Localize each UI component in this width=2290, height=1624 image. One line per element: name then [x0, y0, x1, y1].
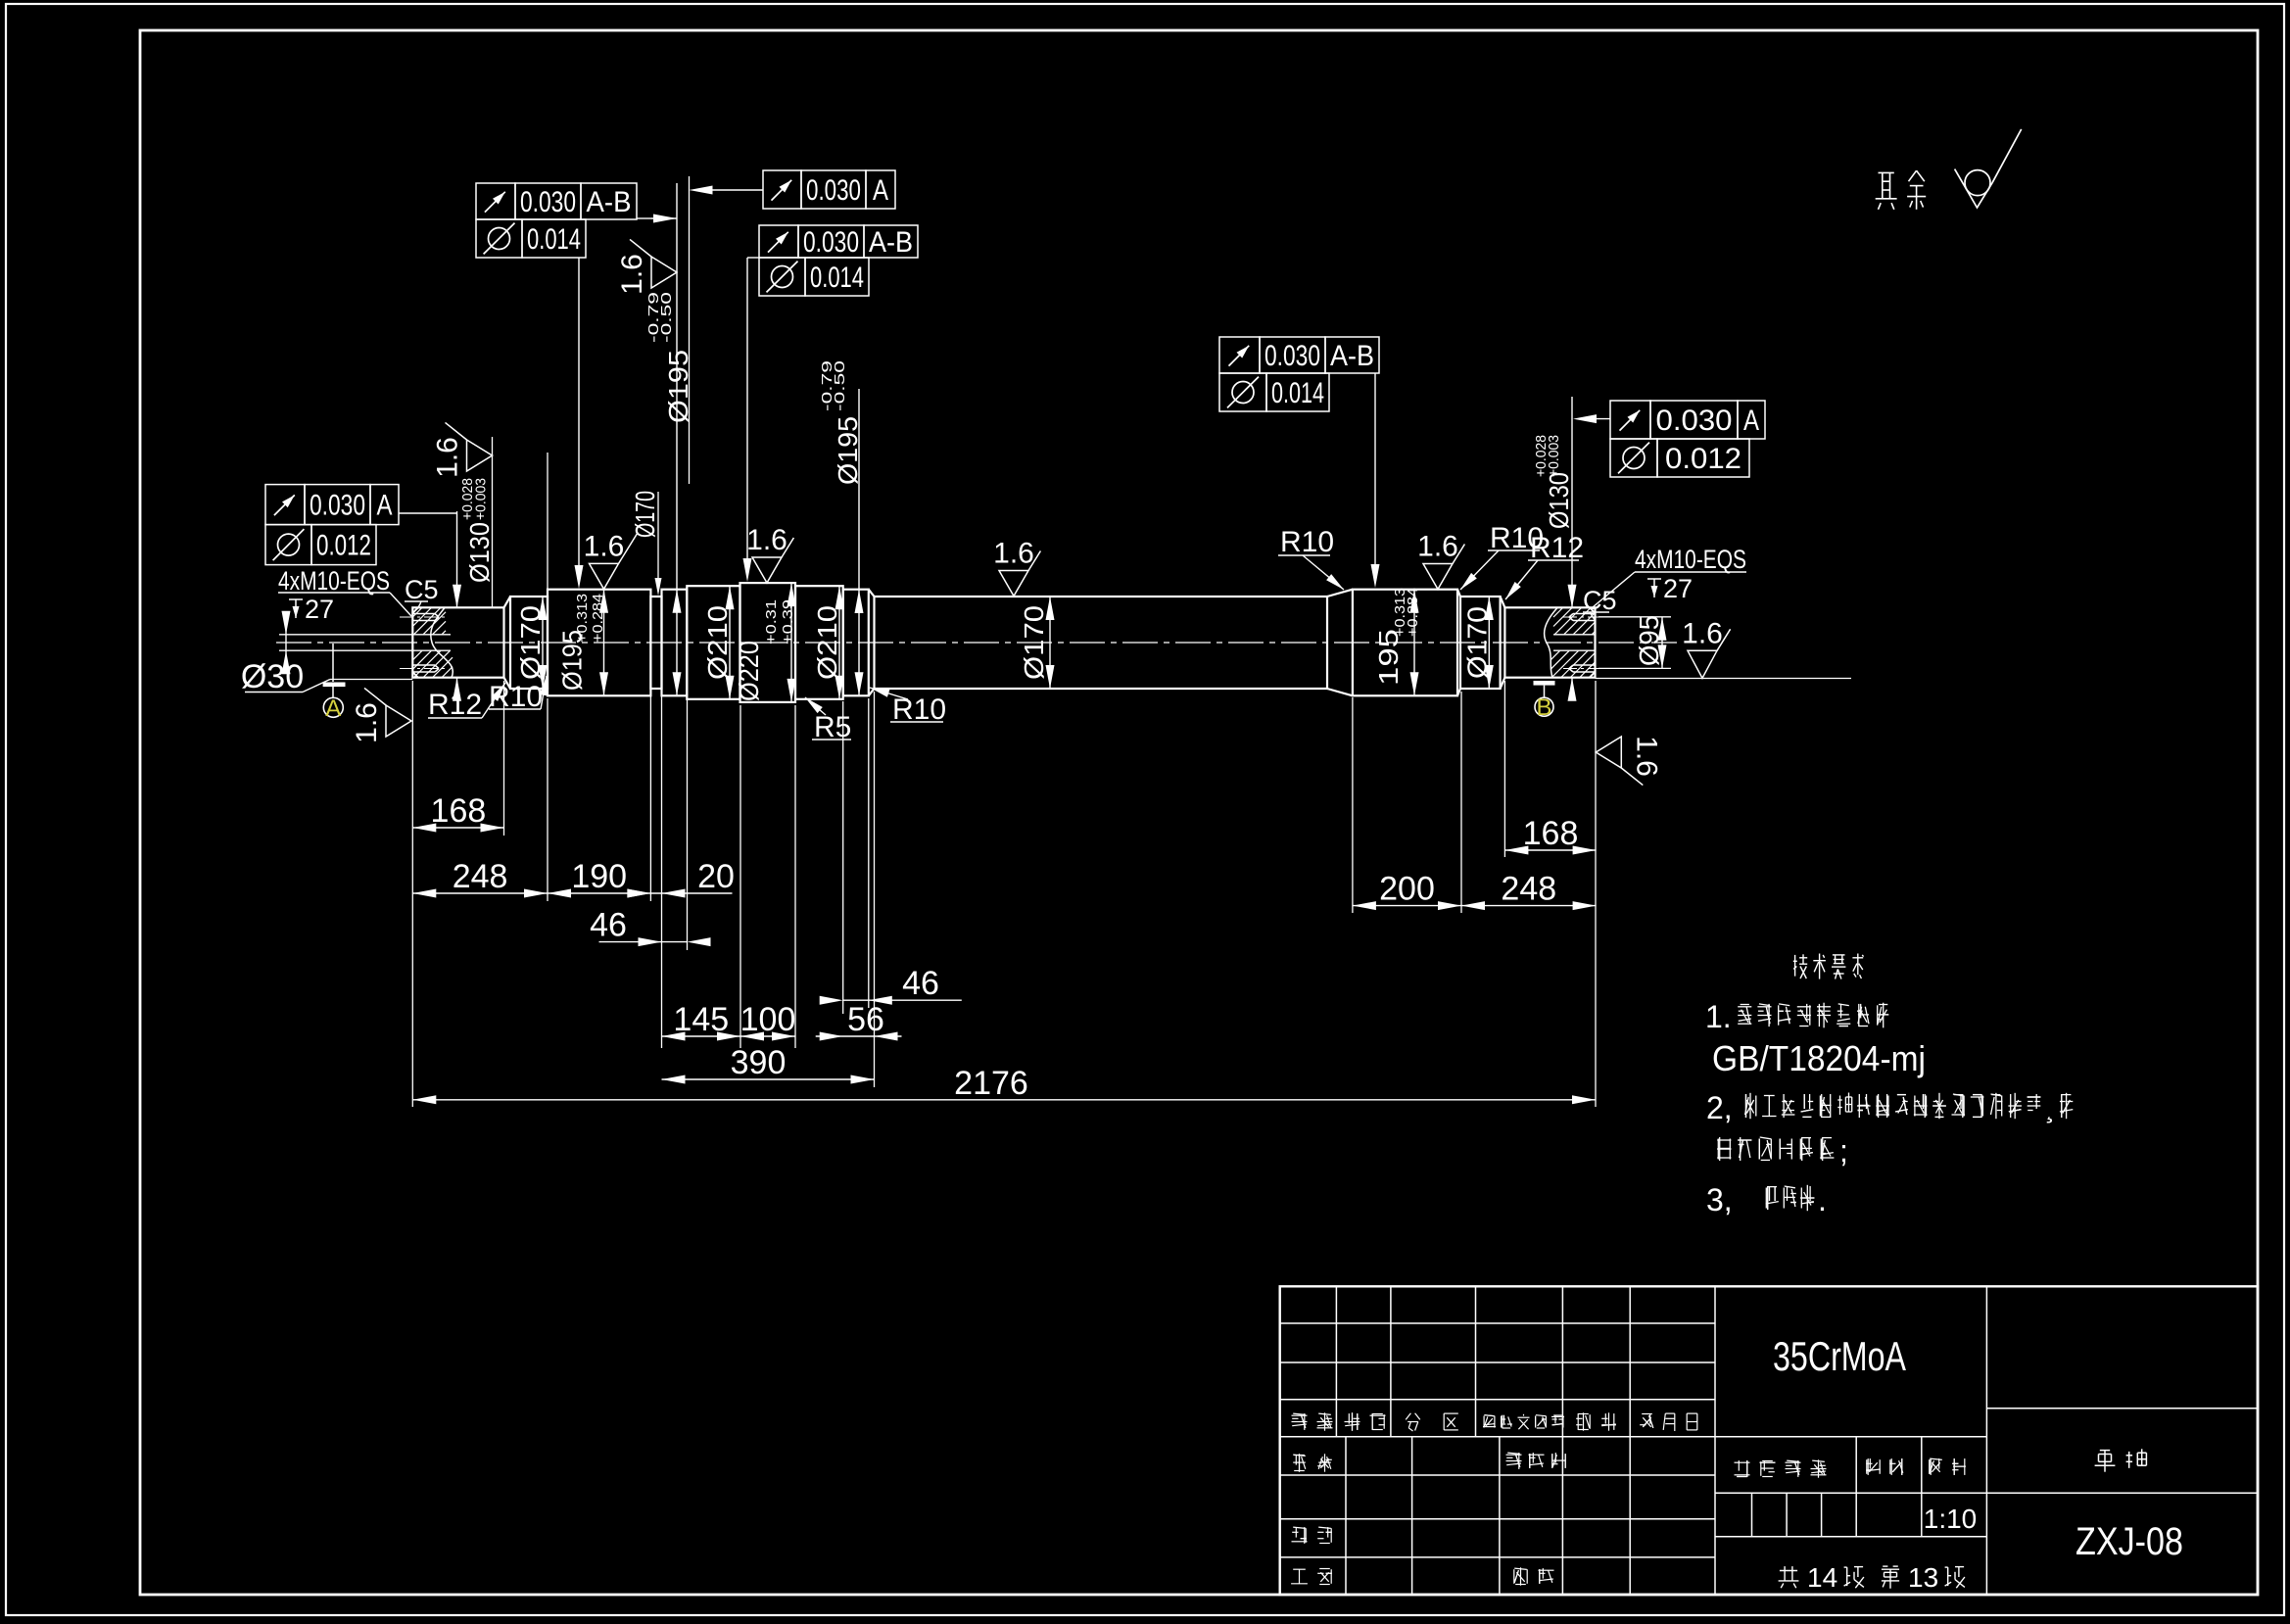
svg-text:0.030: 0.030: [1656, 405, 1733, 437]
svg-text:1.6: 1.6: [1682, 617, 1723, 649]
extension line wheel seat x559 up: [547, 453, 549, 590]
title block labels: [1291, 1412, 1966, 1585]
svg-text:0.012: 0.012: [316, 530, 371, 562]
dimension 100: [740, 1001, 796, 1041]
svg-text:1.6: 1.6: [746, 524, 787, 556]
drawing number ZXJ-08: [2075, 1520, 2183, 1563]
label C5 right: [1583, 586, 1617, 621]
shaft centerline: [276, 642, 1677, 644]
break line right: [1545, 608, 1557, 678]
svg-text:56: 56: [847, 1001, 884, 1038]
svg-text:1:10: 1:10: [1924, 1504, 1978, 1534]
svg-text:14: 14: [1807, 1562, 1837, 1593]
surface callout extension line x502: [492, 437, 494, 607]
diameter dim Ø170 left: [515, 597, 548, 689]
diameter dim Ø130 right journal: [1533, 397, 1577, 701]
svg-text:Ø170: Ø170: [1461, 606, 1492, 679]
svg-text:0.030: 0.030: [1264, 340, 1320, 372]
dimension 168 right: [1504, 815, 1596, 855]
surface finish 1.6 barrel: [993, 538, 1040, 597]
surface finish 1.6 left face (rotated): [351, 688, 411, 742]
diameter dim Ø210 left: [702, 586, 735, 699]
datum A symbol: [323, 644, 346, 722]
diameter dim Ø195-0.79-0.50 first: [645, 183, 693, 695]
label 4xM10-EQS right with depth 27: [1593, 545, 1746, 607]
diameter dim Ø220: [734, 583, 796, 702]
label R10 left 1: [489, 676, 548, 713]
surface finish 1.6 right bolt face: [1682, 617, 1730, 678]
svg-text:20: 20: [697, 858, 735, 895]
title block grid: [1280, 1286, 2258, 1595]
svg-text:390: 390: [731, 1044, 787, 1081]
svg-text:R10: R10: [1280, 526, 1334, 558]
svg-text:2,: 2,: [1706, 1090, 1733, 1125]
dimension 145: [662, 1001, 741, 1041]
hatching left end section: [412, 608, 453, 678]
svg-text:3,: 3,: [1706, 1182, 1733, 1218]
svg-text:A: A: [873, 174, 888, 207]
diameter dim Ø170 barrel: [1019, 597, 1055, 689]
svg-text:27: 27: [305, 595, 334, 624]
label Ø170 relief groove leader: [630, 491, 662, 596]
dimension 56: [816, 1001, 902, 1041]
dimension 248 right: [1461, 871, 1597, 911]
dimension 248 left: [412, 858, 548, 898]
label C5 left: [405, 575, 439, 610]
extension line shoulder x701: [689, 176, 691, 484]
svg-text:1.6: 1.6: [616, 254, 648, 295]
M10 tapped holes left end: [400, 614, 447, 673]
GD&T frame runout 0.030 A (shoulder): [690, 170, 896, 209]
svg-text:.: .: [1818, 1182, 1827, 1218]
svg-text:27: 27: [1663, 574, 1693, 603]
diameter dim Ø210 right: [812, 586, 844, 699]
svg-text:A-B: A-B: [869, 226, 913, 259]
svg-text:0.030: 0.030: [520, 186, 576, 218]
svg-text:+0.284: +0.284: [590, 594, 606, 643]
svg-text:Ø220: Ø220: [734, 641, 764, 701]
svg-text:+0.31: +0.31: [763, 599, 780, 645]
svg-text:35CrMoA: 35CrMoA: [1773, 1333, 1906, 1379]
svg-text:200: 200: [1379, 871, 1435, 908]
svg-text:4xM10-EQS: 4xM10-EQS: [1635, 545, 1746, 574]
svg-text:2176: 2176: [954, 1065, 1028, 1102]
svg-text:Ø170: Ø170: [630, 491, 660, 538]
diameter dim 195 right journal: [1373, 588, 1421, 695]
surface finish 1.6 on relief (rotated): [616, 239, 677, 294]
svg-text:248: 248: [1501, 871, 1556, 908]
break line left: [431, 608, 453, 678]
GD&T frame runout 0.030 A / 0.012 (left end journal): [265, 485, 456, 565]
center bore Ø30 lines: [279, 635, 1596, 650]
svg-text:A: A: [325, 695, 341, 722]
surface finish 1.6 right face (rotated): [1596, 736, 1662, 785]
svg-text:0.030: 0.030: [310, 490, 365, 522]
label R5: [805, 697, 851, 743]
svg-text:248: 248: [453, 858, 508, 895]
svg-text:0.014: 0.014: [810, 262, 864, 294]
svg-text:168: 168: [431, 792, 487, 830]
shaft outline (axle profile): [412, 583, 1595, 702]
svg-text:A: A: [377, 490, 393, 522]
svg-text:Ø170: Ø170: [515, 605, 546, 680]
svg-text:1.: 1.: [1705, 999, 1732, 1034]
svg-text:C5: C5: [1583, 586, 1617, 615]
svg-text:R12: R12: [1530, 532, 1584, 564]
extension lines below shaft: [412, 681, 1596, 1107]
svg-text:+0.313: +0.313: [574, 594, 591, 643]
svg-text:1.6: 1.6: [432, 437, 464, 478]
svg-text:145: 145: [673, 1001, 729, 1038]
part name 车轴: [2095, 1449, 2147, 1471]
diameter dim Ø170 right: [1461, 597, 1494, 689]
dimension 20: [627, 858, 735, 898]
svg-text:-0.50: -0.50: [832, 360, 848, 411]
surface finish 1.6 wheel seat: [584, 530, 638, 589]
svg-text:0.012: 0.012: [1665, 443, 1741, 475]
svg-text:ZXJ-08: ZXJ-08: [2075, 1520, 2183, 1563]
svg-text:A-B: A-B: [1330, 340, 1374, 372]
svg-text:+0.003: +0.003: [1546, 435, 1562, 477]
label R12 right: [1505, 532, 1584, 599]
svg-text:1.6: 1.6: [1630, 736, 1662, 777]
dimension 46 left: [590, 907, 710, 947]
GD&T frame runout 0.030 A-B / 0.014 (right journal): [1219, 337, 1380, 588]
svg-text:1.6: 1.6: [351, 702, 383, 743]
svg-text:C5: C5: [405, 575, 439, 604]
svg-text:1.6: 1.6: [584, 530, 625, 562]
svg-text:190: 190: [571, 858, 627, 895]
diameter dim Ø130 left journal: [453, 478, 495, 701]
hatching right end section: [1551, 608, 1596, 678]
svg-text:-0.50: -0.50: [658, 292, 675, 343]
svg-text:R10: R10: [489, 681, 543, 713]
surface finish 1.6 right journal: [1417, 531, 1464, 590]
label R12 left: [428, 683, 505, 721]
svg-text:0.030: 0.030: [803, 226, 859, 259]
svg-text:46: 46: [590, 907, 627, 944]
material 35CrMoA: [1773, 1333, 1906, 1379]
svg-text:;: ;: [1839, 1133, 1848, 1169]
label R10 left 2: [870, 688, 946, 726]
GD&T frame runout 0.030 A-B / 0.014 (wheel seat): [476, 183, 677, 589]
svg-text:B: B: [1536, 694, 1551, 721]
diameter dim Ø95 bolt circle: [1598, 615, 1671, 668]
label 4xM10-EQS left with depth 27: [278, 566, 411, 624]
svg-text:1.6: 1.6: [1417, 531, 1458, 563]
svg-text:+0.39: +0.39: [780, 599, 796, 645]
svg-text:168: 168: [1523, 815, 1579, 852]
technical requirements text: [1705, 954, 2073, 1218]
svg-text:A: A: [1743, 405, 1759, 437]
svg-text:Ø210: Ø210: [702, 605, 733, 680]
svg-text:R12: R12: [428, 689, 482, 721]
svg-text:0.014: 0.014: [1271, 377, 1324, 409]
svg-text:0.014: 0.014: [527, 223, 581, 256]
diameter dim Ø30 center bore: [241, 611, 412, 695]
GD&T frame runout 0.030 A / 0.012 (right end journal): [1573, 401, 1765, 477]
svg-text:GB/T18204-mj: GB/T18204-mj: [1712, 1038, 1926, 1078]
svg-text:Ø210: Ø210: [812, 605, 842, 680]
M10 tapped holes right end: [1563, 614, 1598, 673]
svg-text:Ø130: Ø130: [1544, 472, 1574, 529]
svg-text:Ø30: Ø30: [241, 658, 304, 695]
dimension 190: [548, 858, 650, 898]
GD&T frame runout 0.030 A-B / 0.014 (Ø220): [743, 225, 919, 582]
svg-text:100: 100: [740, 1001, 796, 1038]
label R10 right 2: [1460, 522, 1544, 590]
datum B symbol: [1534, 681, 1555, 721]
label R10 right 1: [1278, 526, 1344, 590]
svg-text:+0.003: +0.003: [472, 478, 489, 520]
svg-text:Ø170: Ø170: [1019, 605, 1049, 680]
diameter dim Ø195-0.79-0.50 second: [819, 360, 864, 695]
svg-text:A-B: A-B: [587, 186, 632, 218]
svg-text:¸: ¸: [2045, 1091, 2055, 1123]
surface finish 1.6 left journal (rotated): [432, 422, 493, 477]
dimension 390: [662, 1044, 875, 1084]
diameter dim Ø195 wheel seat: [557, 590, 609, 696]
dimension 200: [1353, 871, 1461, 911]
dimension 2176: [412, 1065, 1596, 1105]
svg-text:+0.284: +0.284: [1405, 588, 1421, 637]
svg-text:Ø95: Ø95: [1634, 615, 1664, 666]
scale 1:10: [1924, 1504, 1978, 1534]
right end face bottom extension: [1596, 678, 1852, 680]
svg-text:0.030: 0.030: [806, 174, 861, 207]
dimension 46 right: [820, 965, 962, 1004]
surface finish 1.6 Ø220: [746, 524, 793, 583]
svg-text:1.6: 1.6: [993, 538, 1034, 570]
svg-text:Ø195: Ø195: [833, 416, 863, 485]
svg-text:R5: R5: [814, 711, 851, 743]
dimension 168 left: [412, 792, 503, 833]
svg-text:4xM10-EQS: 4xM10-EQS: [278, 566, 390, 596]
svg-text:Ø130: Ø130: [464, 522, 495, 583]
svg-text:13: 13: [1908, 1562, 1938, 1593]
general surface finish symbol (qi yu): [1876, 129, 2022, 210]
sheet count 共14张 第13张: [1779, 1562, 1965, 1593]
svg-text:R10: R10: [892, 693, 946, 726]
svg-text:46: 46: [902, 965, 939, 1002]
